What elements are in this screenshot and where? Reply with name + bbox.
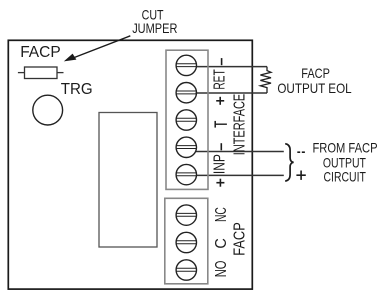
svg-text:NC: NC <box>213 207 230 222</box>
svg-text:FACP: FACP <box>301 65 330 81</box>
svg-text:TRG: TRG <box>61 81 93 98</box>
svg-text:INP: INP <box>212 154 229 174</box>
svg-text:JUMPER: JUMPER <box>132 20 177 36</box>
svg-text:FACP: FACP <box>232 222 249 256</box>
svg-text:INTERFACE: INTERFACE <box>231 94 248 155</box>
svg-text:OUTPUT EOL: OUTPUT EOL <box>277 80 351 96</box>
svg-text:C: C <box>213 238 230 248</box>
svg-text:CIRCUIT: CIRCUIT <box>324 169 367 185</box>
svg-text:NO: NO <box>213 261 230 278</box>
svg-text:RET: RET <box>212 69 229 89</box>
svg-text:FROM FACP: FROM FACP <box>312 140 377 156</box>
svg-text:FACP: FACP <box>20 44 61 61</box>
